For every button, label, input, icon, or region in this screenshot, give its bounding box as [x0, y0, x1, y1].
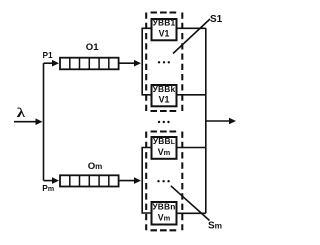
svg-text:УВВk: УВВk [153, 84, 176, 94]
svg-text:Vm: Vm [158, 147, 171, 157]
svg-text:Om: Om [88, 161, 103, 172]
svg-text:P1: P1 [43, 50, 54, 60]
svg-text:O1: O1 [86, 42, 99, 53]
svg-text:λ: λ [17, 105, 26, 120]
svg-text:УВВ1: УВВ1 [153, 18, 176, 28]
svg-text:УВВn: УВВn [152, 201, 175, 211]
svg-text:V1: V1 [159, 28, 170, 38]
svg-text:Sm: Sm [208, 220, 222, 231]
svg-text:V1: V1 [159, 95, 170, 105]
svg-text:S1: S1 [210, 14, 223, 25]
svg-text:Vm: Vm [158, 213, 171, 223]
